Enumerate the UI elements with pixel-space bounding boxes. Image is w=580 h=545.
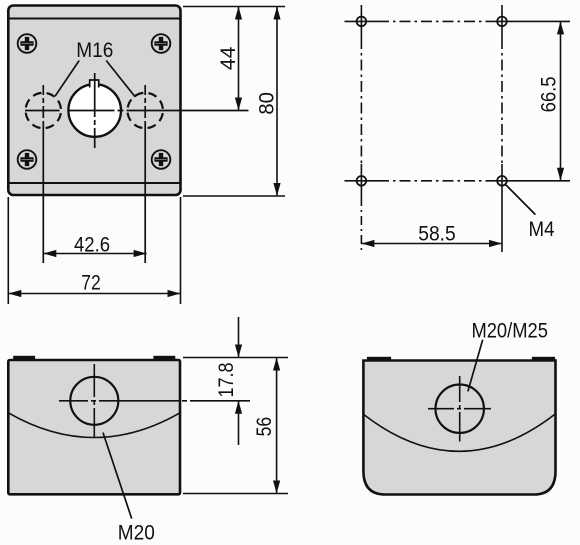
svg-text:58.5: 58.5 (418, 222, 456, 246)
svg-text:42.6: 42.6 (74, 233, 110, 257)
svg-text:M20/M25: M20/M25 (471, 319, 548, 343)
svg-text:M4: M4 (529, 217, 555, 241)
svg-text:72: 72 (81, 270, 101, 294)
svg-text:17.8: 17.8 (214, 362, 238, 397)
svg-text:56: 56 (252, 417, 276, 437)
svg-text:44: 44 (216, 47, 240, 71)
svg-text:66.5: 66.5 (536, 76, 560, 112)
svg-text:80: 80 (255, 92, 279, 115)
svg-text:M20: M20 (118, 520, 155, 544)
svg-text:M16: M16 (76, 38, 113, 62)
